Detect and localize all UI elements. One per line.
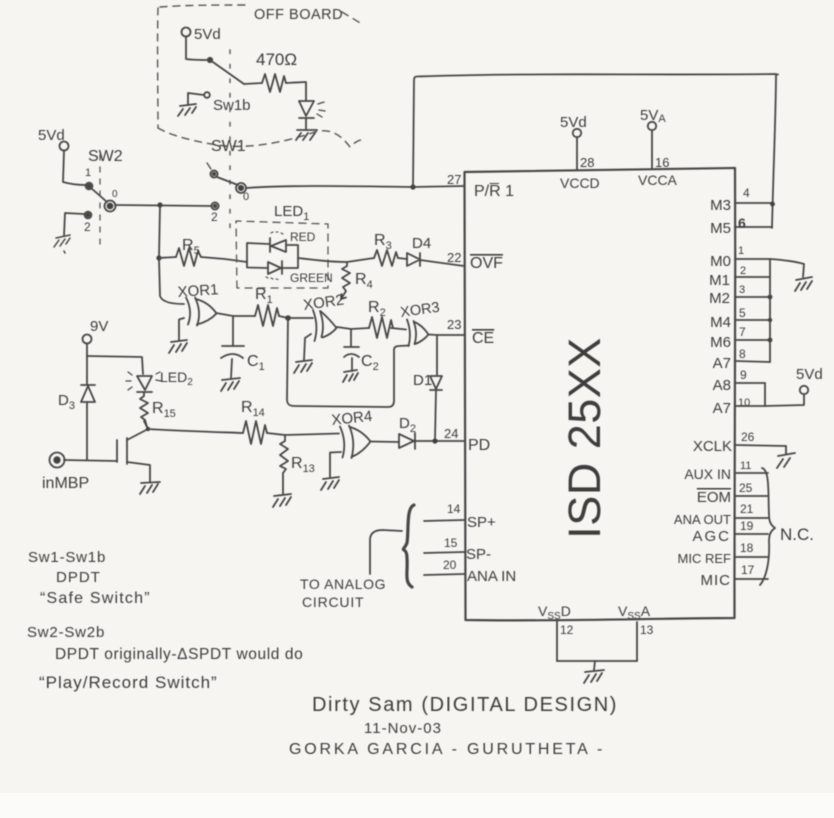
- wire 5Vd to SW2 contact 1: [63, 151, 86, 185]
- pin AGC (19): [735, 533, 768, 535]
- svg-text:SP-: SP-: [466, 546, 491, 563]
- diode D1: [430, 376, 442, 390]
- off-board dashed enclosure: [158, 5, 366, 147]
- pin M2 (3): [735, 296, 770, 298]
- pin A9 (10): [735, 405, 765, 407]
- svg-text:12: 12: [560, 623, 574, 637]
- svg-text:23: 23: [447, 317, 461, 332]
- svg-text:VCCD: VCCD: [560, 175, 600, 191]
- node drain junction: [144, 421, 148, 429]
- wire branch to D3: [86, 356, 88, 384]
- wire XOR1 lower input to ground: [179, 318, 184, 340]
- resistor R2: [369, 317, 393, 338]
- node SW1b pole: [208, 58, 212, 62]
- pin M5 (6): [735, 226, 772, 228]
- wire SW1 pole to P/R pin: [246, 186, 464, 188]
- pin stub ANA IN 20: [424, 574, 464, 575]
- wire XOR4 output to D2: [371, 441, 400, 444]
- svg-text:21: 21: [740, 502, 754, 516]
- LED2: [137, 376, 152, 392]
- wire feedback node B to XOR3 lower input: [287, 318, 409, 407]
- switch SW2 contact 2: [85, 212, 92, 219]
- svg-text:AUX IN: AUX IN: [684, 466, 731, 482]
- svg-text:10: 10: [738, 397, 750, 409]
- svg-text:17: 17: [741, 563, 755, 577]
- svg-text:6: 6: [738, 215, 746, 231]
- diode D3: [81, 385, 95, 402]
- wire D3 to input line: [86, 402, 88, 460]
- wire big loop up and over chip: [413, 74, 778, 228]
- wire 9V to branch node: [86, 344, 88, 356]
- svg-text:0: 0: [243, 191, 249, 203]
- pin M0 (1): [735, 259, 804, 277]
- svg-text:26: 26: [741, 430, 755, 444]
- pin A7 (8): [735, 361, 770, 362]
- wire XOR1 output through R1: [216, 313, 255, 316]
- node big wire junction: [410, 184, 415, 189]
- resistor R4 (vertical): [341, 262, 350, 299]
- switch SW1 contact 2: [211, 202, 218, 209]
- wire R5 node to R5: [159, 257, 176, 258]
- pin ANA OUT (21): [735, 517, 768, 519]
- switch SW2 pole 0: [105, 201, 116, 212]
- svg-text:RED: RED: [290, 230, 316, 244]
- resistor 470ohm: [262, 74, 286, 92]
- svg-text:5Vd: 5Vd: [560, 114, 587, 131]
- svg-text:1: 1: [85, 167, 91, 179]
- wire arm to resistor: [244, 83, 262, 84]
- ground (C2): [343, 370, 358, 382]
- svg-text:11: 11: [740, 460, 751, 472]
- svg-text:ANA OUT: ANA OUT: [674, 512, 731, 527]
- wire SW2 contact 2 to ground: [64, 213, 84, 236]
- pin M6 (7): [735, 339, 770, 341]
- svg-text:XOR1: XOR1: [177, 281, 219, 301]
- ground (M0 bus): [795, 277, 812, 291]
- ground (off-board LED): [296, 130, 317, 140]
- pin M1 (2): [735, 276, 769, 278]
- svg-text:2: 2: [740, 265, 746, 277]
- resistor R13 (vertical): [280, 435, 288, 473]
- ground (SW2 contact 2): [54, 235, 70, 253]
- terminal inMBP: [50, 453, 65, 468]
- ground (XOR4 input): [321, 477, 339, 490]
- svg-text:28: 28: [580, 155, 594, 170]
- resistor R1: [255, 305, 279, 326]
- diode D4: [407, 253, 420, 266]
- ground (XCLK): [777, 446, 795, 468]
- svg-text:D1: D1: [413, 372, 432, 389]
- svg-text:20: 20: [443, 558, 457, 572]
- LED1 dashed box: [236, 221, 328, 288]
- node D1-PD junction: [432, 438, 437, 443]
- wire 5Vd to VCCD pin 28: [576, 137, 578, 170]
- resistor R5: [176, 248, 201, 266]
- svg-text:DPDT: DPDT: [56, 569, 101, 586]
- svg-text:CE: CE: [472, 330, 494, 347]
- svg-text:Sw1-Sw1b: Sw1-Sw1b: [28, 549, 106, 566]
- pin XCLK (26): [735, 445, 786, 446]
- wire inMBP to gate: [64, 460, 117, 461]
- pin 12 wire VSSD: [556, 621, 558, 661]
- svg-text:5Vd: 5Vd: [194, 26, 221, 43]
- svg-text:MIC: MIC: [701, 572, 732, 589]
- svg-text:EOM: EOM: [697, 489, 731, 506]
- svg-text:16: 16: [655, 155, 669, 170]
- wire 5Vd to A9: [765, 394, 804, 406]
- diode LED1 green (points right): [268, 261, 282, 274]
- svg-text:11-Nov-03: 11-Nov-03: [364, 720, 442, 737]
- pin EOM (25): [735, 495, 768, 497]
- svg-text:M5: M5: [710, 220, 731, 237]
- svg-text:9V: 9V: [90, 318, 108, 335]
- pin AUX IN (11): [735, 472, 768, 474]
- ground (XOR2 input): [294, 360, 312, 373]
- wire pointer to analog circuit: [370, 530, 402, 574]
- switch SW1 arm: [217, 177, 238, 185]
- wire D2 to PD pin 24: [415, 440, 464, 442]
- node B junction: [285, 315, 291, 321]
- resistor R14: [243, 421, 267, 444]
- ground (C1): [221, 378, 240, 391]
- svg-text:OFF BOARD: OFF BOARD: [254, 7, 343, 23]
- wire 5VA to VCCA pin 16: [651, 130, 653, 169]
- svg-text:A7: A7: [713, 355, 731, 372]
- contact SW1b: [204, 92, 210, 98]
- pin stub SP- 15: [424, 552, 464, 553]
- svg-text:SW2: SW2: [88, 148, 123, 165]
- terminal 5Vd (off-board): [182, 28, 191, 37]
- dashed mechanical link SW1b-SW1: [229, 50, 231, 228]
- wire M bus vertical: [769, 259, 771, 362]
- svg-text:M6: M6: [710, 334, 731, 351]
- pin A8 (9): [735, 382, 765, 384]
- wire D4 to OVF pin 22: [420, 260, 464, 266]
- wire resistor to LED: [286, 82, 306, 100]
- svg-text:22: 22: [447, 250, 461, 265]
- switch SW1 pole 0: [236, 183, 246, 193]
- xor gate XOR4: [331, 408, 373, 458]
- svg-text:XCLK: XCLK: [693, 438, 732, 455]
- svg-text:AGC: AGC: [692, 528, 731, 545]
- xor gate XOR1: [177, 281, 219, 325]
- resistor R3: [374, 250, 398, 266]
- svg-text:7: 7: [739, 325, 746, 339]
- svg-text:2: 2: [84, 220, 91, 234]
- svg-text:MIC REF: MIC REF: [678, 551, 732, 566]
- svg-text:18: 18: [740, 541, 754, 555]
- wire A8 to A9 stub: [764, 383, 766, 406]
- svg-text:A8: A8: [713, 377, 731, 394]
- svg-text:3: 3: [739, 284, 745, 296]
- svg-text:5Vd: 5Vd: [38, 127, 65, 144]
- wire SW2 pole to SW1 contact 2: [115, 205, 211, 206]
- svg-text:Dirty Sam (DIGITAL DESIGN): Dirty Sam (DIGITAL DESIGN): [312, 694, 618, 716]
- svg-text:inMBP: inMBP: [42, 475, 89, 492]
- svg-text:9: 9: [740, 368, 747, 382]
- LED1 parallel pair frame: [247, 243, 298, 268]
- stem R13 to ground: [282, 473, 284, 494]
- svg-text:CIRCUIT: CIRCUIT: [302, 594, 364, 610]
- diode LED1 red (points left): [270, 238, 286, 252]
- svg-text:19: 19: [740, 519, 754, 533]
- switch SW1b arm: [210, 60, 244, 84]
- svg-text:“Play/Record Switch”: “Play/Record Switch”: [39, 673, 218, 692]
- svg-text:N.C.: N.C.: [780, 525, 814, 544]
- pin MIC (17): [735, 578, 768, 580]
- switch SW1 contact 1: [210, 170, 217, 177]
- wire R13 node to XOR4: [285, 434, 339, 436]
- svg-text:Sw1b: Sw1b: [213, 97, 251, 114]
- svg-text:PD: PD: [468, 437, 490, 454]
- diode D2: [399, 433, 415, 449]
- ground (R13): [273, 494, 291, 507]
- svg-text:8: 8: [739, 347, 746, 361]
- svg-text:5Vd: 5Vd: [796, 366, 823, 383]
- svg-text:13: 13: [640, 623, 654, 637]
- svg-text:Sw2-Sw2b: Sw2-Sw2b: [27, 624, 105, 641]
- svg-text:DPDT originally-ΔSPDT would do: DPDT originally-ΔSPDT would do: [55, 646, 303, 663]
- svg-text:A7: A7: [713, 400, 731, 417]
- capacitor C1: [221, 316, 244, 378]
- svg-text:15: 15: [444, 536, 458, 550]
- svg-text:OVF: OVF: [470, 255, 503, 272]
- svg-text:GORKA GARCIA - GURUTHETA -: GORKA GARCIA - GURUTHETA -: [289, 741, 605, 758]
- svg-text:M1: M1: [709, 272, 730, 289]
- ground (VSS): [584, 661, 604, 683]
- svg-text:25: 25: [739, 481, 753, 495]
- node R5 junction: [156, 255, 161, 260]
- wire R2 to XOR3: [391, 328, 406, 330]
- wire D1 to PD line: [435, 390, 436, 440]
- IC U1 ISD25xx outline: [465, 168, 736, 620]
- svg-text:470Ω: 470Ω: [256, 50, 297, 69]
- svg-text:SP+: SP+: [467, 514, 496, 531]
- wire XOR4 lower input to ground: [330, 452, 341, 477]
- svg-text:0: 0: [112, 189, 118, 200]
- wire branch to LED2: [87, 356, 143, 374]
- pin M3 (4): [735, 202, 772, 204]
- svg-text:4: 4: [743, 186, 750, 200]
- terminal 5Vd (left): [60, 142, 69, 151]
- svg-text:GREEN: GREEN: [290, 271, 333, 285]
- xor gate XOR3: [399, 300, 440, 346]
- svg-text:M0: M0: [710, 253, 731, 270]
- pin 13 wire VSSA: [636, 622, 638, 661]
- svg-text:24: 24: [444, 426, 458, 441]
- pin MIC REF (18): [735, 556, 768, 558]
- wire XOR2 lower input to ground: [304, 334, 311, 360]
- wire junction A down to R5 node: [159, 205, 160, 258]
- svg-text:TO ANALOG: TO ANALOG: [300, 576, 386, 592]
- wire R14 to R13 node: [267, 433, 285, 435]
- svg-text:14: 14: [447, 502, 461, 516]
- node M3 junction: [770, 202, 775, 207]
- svg-text:ISD 25XX: ISD 25XX: [559, 337, 610, 539]
- dashed mechanical link SW2: [99, 155, 101, 248]
- svg-text:5: 5: [739, 306, 746, 320]
- wire XOR2 output to R2: [337, 327, 369, 329]
- wire node B to XOR2 input: [288, 317, 313, 319]
- svg-text:ANA IN: ANA IN: [467, 568, 516, 585]
- capacitor C2: [344, 329, 359, 371]
- wire VSS common: [557, 660, 637, 662]
- wire XOR3 output to CE pin 23: [429, 334, 465, 337]
- svg-text:P/R̅ 1: P/R̅ 1: [474, 182, 514, 200]
- svg-text:2: 2: [211, 210, 218, 224]
- wire D1 branch from CE: [436, 335, 438, 375]
- pin M4 (5): [735, 319, 770, 321]
- svg-text:27: 27: [447, 172, 461, 187]
- node junction A: [157, 202, 162, 207]
- wire junction down to XOR1 input: [159, 258, 184, 304]
- svg-text:D4: D4: [412, 235, 431, 252]
- wire drain to R14: [148, 429, 243, 433]
- brace to analog: [403, 505, 414, 587]
- ground (SW1b contact): [178, 93, 204, 116]
- svg-text:VCCA: VCCA: [638, 172, 678, 188]
- switch SW2 contact 1: [86, 183, 93, 190]
- LED light rays: [317, 102, 325, 117]
- svg-text:M4: M4: [710, 314, 731, 331]
- svg-text:SW1: SW1: [211, 138, 246, 155]
- ground (XOR1 input): [169, 340, 187, 353]
- svg-text:M3: M3: [710, 197, 731, 214]
- svg-text:1: 1: [738, 245, 744, 257]
- wire R3 to D4: [398, 258, 407, 259]
- transistor Q1 (MOSFET): [116, 440, 118, 462]
- wire R1 to node B: [279, 316, 288, 318]
- LED (off-board indicator): [299, 101, 314, 130]
- switch SW2 arm: [91, 188, 107, 202]
- brace N.C.: [760, 468, 775, 585]
- wire R5 to LED1 block: [201, 257, 247, 262]
- terminal 9V: [83, 335, 92, 344]
- svg-text:M2: M2: [709, 290, 730, 307]
- wire 5Vd to SW1b pole: [186, 37, 208, 60]
- resistor R15 (vertical): [140, 392, 148, 427]
- pin stub SP+ 14: [424, 520, 464, 521]
- svg-text:“Safe Switch”: “Safe Switch”: [40, 590, 151, 607]
- ground (Q1 source): [140, 482, 160, 494]
- wire LED1 to R3: [298, 258, 374, 262]
- xor gate XOR2: [302, 291, 345, 341]
